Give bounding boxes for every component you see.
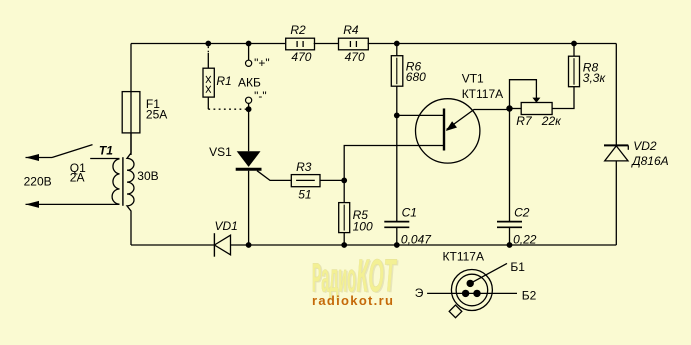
svg-text:R1: R1	[216, 74, 231, 88]
svg-text:КТ117А: КТ117А	[462, 87, 503, 101]
svg-text:C1: C1	[402, 206, 417, 220]
node bottom rail C2	[507, 242, 513, 248]
capacitor C1	[384, 222, 409, 245]
svg-text:КТ117А: КТ117А	[443, 250, 484, 264]
svg-text:30В: 30В	[137, 169, 158, 183]
resistor R6	[391, 44, 403, 222]
wire bottom rail left of VD1	[131, 244, 214, 246]
svg-text:R2: R2	[290, 23, 306, 37]
transformer T1 primary winding	[112, 159, 119, 204]
resistor R1	[203, 68, 214, 97]
svg-text:470: 470	[345, 50, 365, 64]
pinout diagram КТ117А	[451, 270, 492, 311]
svg-text:"-": "-"	[254, 89, 267, 103]
wire right branch below VD2	[615, 161, 617, 245]
wire R1 to minus terminal dotted	[208, 108, 248, 110]
svg-text:C2: C2	[514, 206, 530, 220]
wire bottom rail right of VD1	[231, 244, 617, 246]
svg-text:АКБ: АКБ	[238, 75, 261, 89]
key tab diamond	[449, 305, 462, 318]
wire left branch down to fuse and transformer	[130, 44, 132, 156]
svg-text:Б2: Б2	[522, 289, 537, 303]
node top rail R1	[205, 41, 211, 47]
wire top rail segment right	[368, 43, 617, 45]
svg-text:0,22: 0,22	[513, 233, 537, 247]
svg-text:Д816А: Д816А	[630, 154, 668, 168]
node bottom rail C1	[394, 242, 400, 248]
svg-text:2A: 2A	[70, 171, 85, 185]
resistor R2	[286, 38, 315, 50]
wire top rail segment middle	[314, 43, 339, 45]
switch Q1	[26, 145, 120, 159]
svg-text:R4: R4	[343, 23, 359, 37]
svg-text:51: 51	[298, 188, 311, 202]
wire mains bottom lead	[26, 203, 120, 205]
resistor R4	[339, 38, 369, 50]
node minus terminal	[246, 106, 252, 112]
node emitter R7 C2 junction	[506, 105, 512, 111]
svg-text:Э: Э	[415, 286, 424, 300]
wire top rail segment left	[131, 43, 285, 45]
svg-text:3,3к: 3,3к	[583, 71, 607, 85]
svg-text:R3: R3	[296, 160, 312, 174]
transistor VT1 КТ117А	[344, 99, 509, 181]
terminal "+"	[248, 44, 250, 61]
lead line Б1	[470, 263, 507, 283]
svg-text:220В: 220В	[24, 175, 52, 189]
svg-text:Б1: Б1	[510, 260, 525, 274]
svg-text:25A: 25A	[146, 108, 167, 122]
node R3 R5 junction	[341, 178, 347, 184]
svg-text:T1: T1	[99, 143, 113, 157]
svg-text:radiokot.ru: radiokot.ru	[312, 293, 394, 308]
thyristor VS1	[236, 109, 292, 245]
wire right branch above VD2	[615, 44, 617, 146]
arrow mains input bottom	[26, 201, 40, 208]
svg-text:0,047: 0,047	[401, 233, 432, 247]
svg-text:VD2: VD2	[633, 139, 657, 153]
capacitor C2	[497, 109, 522, 246]
resistor R8	[552, 44, 579, 109]
node top rail R8	[571, 41, 577, 47]
transformer T1 core	[122, 157, 124, 206]
pin Б2 dot	[473, 290, 480, 297]
node R6 B2 junction	[394, 113, 400, 119]
node bottom rail R5	[341, 242, 347, 248]
diode VD1	[214, 233, 230, 257]
node bottom rail VS1	[246, 242, 252, 248]
svg-text:VS1: VS1	[209, 145, 232, 159]
svg-text:470: 470	[291, 50, 311, 64]
watermark Радио КОТ logo	[312, 251, 399, 303]
zener diode VD2	[604, 145, 628, 161]
transformer T1 secondary winding	[127, 133, 134, 245]
fuse F1	[122, 92, 140, 133]
lead line Э to Б2	[427, 292, 517, 294]
arrow mains input top	[26, 154, 40, 161]
svg-text:VT1: VT1	[462, 72, 484, 86]
terminal "-"	[246, 97, 252, 103]
wire R1 top	[207, 53, 209, 68]
wiper arrow R7	[532, 98, 540, 103]
svg-text:22к: 22к	[541, 114, 562, 128]
potentiometer R7	[510, 80, 553, 115]
wire R1 top dotted	[207, 47, 209, 54]
svg-text:"+": "+"	[254, 56, 270, 70]
svg-text:100: 100	[353, 220, 373, 234]
node top rail АКБ	[246, 41, 252, 47]
svg-text:R7: R7	[516, 114, 533, 128]
svg-text:VD1: VD1	[215, 219, 238, 233]
wire R1 bottom	[207, 97, 209, 109]
pin Э dot	[462, 290, 469, 297]
resistor R3	[291, 175, 344, 187]
svg-text:680: 680	[406, 70, 426, 84]
pin Б1 dot	[467, 280, 474, 287]
node top rail R6	[394, 41, 400, 47]
resistor R5	[339, 180, 350, 245]
